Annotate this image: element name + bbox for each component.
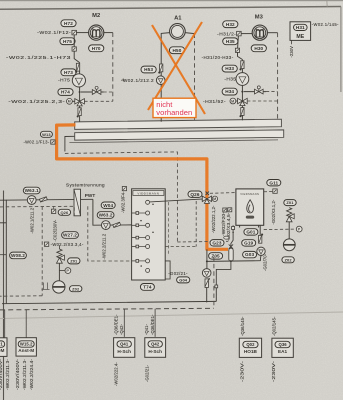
sensor box E T74	[122, 187, 126, 191]
label oval H75	[60, 38, 75, 45]
three-way valve H74	[75, 99, 85, 106]
boiler box G	[236, 189, 264, 225]
svg-text:Z02: Z02	[72, 286, 80, 291]
dashed wire valve M3 right	[247, 100, 277, 102]
pipe capsule to return	[216, 261, 231, 285]
junction dot y261 left	[206, 260, 208, 262]
svg-text:-230V: -230V	[289, 46, 294, 58]
wire gauge stub	[59, 270, 65, 272]
svg-text:-C02/230V-: -C02/230V-	[52, 219, 57, 241]
junction dot M2 tee	[79, 91, 81, 93]
label oval W08.2	[10, 252, 27, 259]
wire to M3 motor	[241, 33, 252, 35]
pipe G04 to return	[206, 288, 208, 303]
svg-text:VIEΦSMANN: VIEΦSMANN	[240, 193, 259, 196]
label oval H32	[223, 21, 238, 28]
x mark on orange	[206, 192, 209, 195]
svg-text:-W02.2/224.4-: -W02.2/224.4-	[29, 358, 34, 390]
label oval G11	[267, 180, 281, 186]
connector square return	[215, 285, 218, 288]
svg-text:Q02: Q02	[246, 342, 255, 347]
sensor below M3 valve	[239, 108, 244, 118]
boiler flame	[247, 200, 254, 213]
svg-text:vorhanden: vorhanden	[156, 108, 192, 117]
pipe stub left edge	[0, 222, 6, 224]
svg-text:Q36: Q36	[278, 342, 287, 347]
sensor box E H31-2	[237, 31, 242, 35]
sensor box E C02	[51, 209, 55, 213]
svg-text:-W02.1/F13-: -W02.1/F13-	[24, 140, 50, 146]
dot boiler left	[232, 232, 234, 234]
orange cross line B	[148, 22, 202, 110]
svg-text:T74: T74	[143, 284, 152, 289]
boiler feet	[240, 225, 259, 227]
svg-text:H-Sch: H-Sch	[117, 349, 131, 354]
svg-text:H70: H70	[92, 46, 101, 51]
svg-text:-W02.1/145-: -W02.1/145-	[312, 22, 339, 28]
label oval H35	[223, 38, 238, 45]
check valve W63.2	[113, 222, 121, 227]
svg-text:M: M	[68, 100, 71, 104]
label oval W63.2	[97, 212, 114, 219]
right frame border line	[340, 7, 342, 93]
svg-text:H34: H34	[225, 89, 234, 94]
pipe M3 main	[241, 60, 243, 121]
plate heat exchanger PWT	[74, 189, 81, 216]
junction dot y261 mid	[230, 260, 232, 262]
svg-text:-230V-: -230V-	[271, 360, 276, 382]
label oval G01	[244, 229, 258, 235]
T74 dots	[140, 203, 154, 266]
svg-text:-Q36/145-: -Q36/145-	[240, 316, 245, 336]
manifold bar 1	[75, 119, 282, 129]
pump A1	[156, 76, 165, 85]
wire Q41 up	[123, 309, 125, 337]
T74 right jumper loop	[165, 261, 170, 279]
small valve above filter	[229, 244, 233, 248]
svg-text:M3: M3	[255, 14, 264, 20]
svg-text:PWT: PWT	[85, 193, 96, 198]
label oval G04	[177, 277, 190, 283]
pump group motor M3	[252, 25, 267, 40]
svg-text:W27.2: W27.2	[63, 233, 77, 238]
wire M3 drop	[237, 36, 240, 48]
label oval W27.2	[62, 232, 79, 239]
svg-text:Z02: Z02	[284, 257, 292, 262]
svg-text:Q42: Q42	[151, 342, 160, 347]
svg-text:M: M	[213, 197, 216, 201]
dashed wire valve branch M2	[104, 91, 113, 93]
svg-text:A1: A1	[174, 15, 182, 21]
pipe G04 branch	[206, 249, 208, 268]
dashed wire T74 right R5	[165, 246, 196, 248]
device box W15.1 cut	[0, 338, 7, 357]
pipe safety down	[58, 263, 60, 281]
wire m to valve	[72, 100, 75, 102]
dashed wire M2 right drop	[112, 33, 114, 102]
svg-text:G04: G04	[179, 277, 188, 282]
svg-text:W63.2: W63.2	[99, 213, 113, 218]
valve M2 branch	[92, 86, 101, 94]
svg-text:G23: G23	[212, 240, 221, 245]
pipe return drop	[215, 288, 217, 302]
pump G03	[257, 247, 265, 255]
wire valve branch M3	[244, 91, 266, 93]
svg-text:Q26: Q26	[60, 210, 69, 215]
svg-text:H30: H30	[254, 46, 263, 51]
svg-text:-W02.2/211.2: -W02.2/211.2	[102, 233, 107, 259]
thin line under bar2	[69, 140, 278, 143]
svg-text:-W02.3/F4-: -W02.3/F4-	[120, 191, 125, 213]
svg-text:-W02.2/X3.3,4-: -W02.2/X3.3,4-	[51, 242, 84, 248]
label oval W13	[40, 131, 52, 137]
controller box T74	[132, 189, 166, 280]
sensor G01	[259, 234, 264, 244]
sensor box T X34	[228, 208, 232, 212]
motor circle M valve M3	[230, 98, 236, 104]
wire Q42 up	[154, 309, 156, 337]
svg-text:H35: H35	[226, 39, 235, 44]
pump W63.2	[101, 221, 110, 230]
svg-text:ME: ME	[296, 34, 304, 40]
label oval Q26 left	[58, 209, 70, 215]
T74 logo band	[133, 191, 164, 196]
pipe M2 main	[79, 63, 81, 122]
wire H31 box stub	[290, 40, 292, 44]
label oval H34	[222, 88, 237, 95]
device box W15.2	[16, 338, 36, 356]
label oval W63.1	[23, 187, 40, 194]
sensor box boiler left	[232, 227, 235, 230]
filter sensor below G04	[205, 278, 210, 287]
label oval W04	[101, 202, 115, 208]
dashed wire boiler to gauge	[264, 228, 297, 231]
label oval H50	[169, 47, 184, 54]
three-way valve Q26	[202, 196, 211, 203]
wire M2 jog	[74, 51, 79, 62]
label oval Q26	[188, 191, 202, 197]
pump G04	[202, 269, 211, 278]
svg-text:-H35: -H35	[224, 76, 236, 82]
svg-text:-230V/400V-: -230V/400V-	[15, 358, 20, 390]
svg-text:H32: H32	[226, 22, 235, 27]
sensor box E F12	[72, 30, 77, 34]
label oval Z05	[209, 253, 223, 259]
sensor H33	[239, 61, 244, 71]
dashed wire right of T74	[168, 202, 170, 255]
svg-text:-G02/21-: -G02/21-	[144, 364, 149, 382]
pump W63.1	[27, 196, 36, 205]
svg-text:-Q42-: -Q42-	[119, 323, 124, 335]
pump group motor M2	[89, 25, 104, 40]
svg-text:-W02.2/211.3-: -W02.2/211.3-	[5, 358, 10, 390]
label oval T74	[140, 284, 154, 291]
svg-text:-H31/2-: -H31/2-	[217, 31, 236, 37]
label oval H72	[61, 20, 76, 27]
svg-text:-230V/400V-: -230V/400V-	[0, 358, 3, 390]
junction dot M3 tee	[241, 91, 243, 93]
svg-text:Z01: Z01	[286, 200, 294, 205]
svg-text:M: M	[231, 99, 234, 103]
dashed wire under bars	[65, 152, 177, 242]
svg-text:-Q36/DE1-: -Q36/DE1-	[150, 314, 155, 335]
svg-text:P: P	[298, 228, 301, 232]
label oval Z02 left	[70, 286, 82, 292]
top frame border line	[0, 7, 341, 10]
stray scan mark	[122, 78, 125, 81]
wire M3 jog	[238, 52, 243, 59]
module box H31 ME	[290, 22, 311, 41]
svg-text:HO1B: HO1B	[244, 349, 258, 354]
svg-text:-W02.2/211.3-: -W02.2/211.3-	[22, 358, 27, 390]
label oval H53	[141, 66, 156, 73]
pressure gauge P right	[296, 226, 302, 232]
pipe boiler left down	[231, 225, 233, 248]
svg-text:G01: G01	[246, 229, 255, 234]
svg-text:W15.2: W15.2	[20, 342, 33, 347]
three-way valve H31-52	[238, 98, 248, 105]
arrow into orange	[202, 197, 205, 201]
svg-text:M2: M2	[92, 13, 100, 19]
svg-text:-W02.1/F12-: -W02.1/F12-	[37, 30, 71, 36]
dashed wire G11 to valve	[210, 192, 273, 194]
device box Q41	[114, 338, 135, 358]
sensor box 225.1	[72, 47, 76, 51]
check valve W63.1	[40, 197, 48, 202]
dashed wire left drop	[41, 207, 43, 296]
svg-text:-W02/222.4-: -W02/222.4-	[114, 362, 119, 386]
svg-text:G19: G19	[244, 240, 253, 245]
pump H35 M3	[236, 73, 249, 86]
svg-text:H33: H33	[225, 66, 234, 71]
device box Q36	[272, 338, 293, 357]
sensor below H74	[77, 108, 82, 118]
wire M2 motor right	[104, 32, 113, 34]
wire M3 motor right	[267, 32, 277, 34]
pipe left return drop	[5, 200, 7, 304]
svg-text:-G02/70-: -G02/70-	[263, 253, 268, 271]
sensor H53	[158, 64, 163, 74]
valve M3 branch	[255, 86, 264, 94]
label oval G03	[243, 251, 257, 257]
top scan edge	[0, 0, 343, 1]
wire T74 to Q26 valve	[150, 199, 204, 202]
dashed wire bus drop	[213, 257, 215, 309]
expansion vessel Z02 right	[283, 239, 295, 251]
pipe stub W08.2	[0, 254, 6, 256]
frame tick top	[326, 0, 328, 7]
svg-text:-W02.1/225.2,3-: -W02.1/225.2,3-	[8, 99, 65, 105]
svg-text:-H31/20-H33-: -H31/20-H33-	[202, 55, 234, 61]
safety valve Z01 right	[286, 208, 294, 222]
T74 terminal circles	[146, 200, 150, 272]
pipe bottom return	[2, 301, 216, 303]
device box Q02	[239, 338, 261, 357]
motor circle M Q26	[212, 196, 217, 201]
svg-text:W13: W13	[42, 132, 51, 137]
svg-text:-H75: -H75	[58, 78, 70, 84]
svg-text:-Q02/145-: -Q02/145-	[272, 316, 277, 336]
svg-text:Z05: Z05	[211, 253, 220, 258]
svg-text:H74: H74	[61, 90, 70, 95]
sensor box E F13	[51, 140, 55, 144]
label oval Z02 right	[282, 257, 294, 263]
svg-text:-Q41-: -Q41-	[144, 323, 149, 335]
pipe boiler right down	[259, 225, 261, 235]
manifold bar 2	[75, 130, 284, 140]
pipe G03 elbow	[260, 256, 263, 261]
filter capsule Z05	[229, 248, 233, 261]
dashed wire valve branch M3	[266, 91, 278, 93]
svg-text:-W02/222.1,2-: -W02/222.1,2-	[211, 205, 216, 233]
svg-text:-G02/X3.1,2-: -G02/X3.1,2-	[271, 199, 276, 224]
label oval H70	[89, 45, 104, 52]
pipe safety right down	[288, 222, 290, 239]
svg-text:W63.1: W63.1	[25, 188, 39, 193]
svg-text:W04: W04	[103, 203, 113, 208]
svg-text:-230V-: -230V-	[240, 360, 245, 382]
pipe PWT down elbow	[93, 199, 132, 225]
label oval H30	[251, 45, 266, 52]
vessel mount marks	[42, 283, 50, 290]
svg-text:Q41: Q41	[120, 342, 129, 347]
sensor box E F20	[223, 208, 227, 212]
label oval G23	[210, 240, 224, 246]
wire m to valve M3	[236, 100, 238, 102]
wire M2 drop	[73, 35, 75, 47]
svg-text:W08.2: W08.2	[11, 253, 25, 258]
boiler small logo	[246, 216, 254, 219]
label oval Z01 left	[68, 258, 80, 264]
nicht vorhanden box	[153, 98, 196, 117]
dashed wire sensors	[177, 240, 228, 243]
dashed wire left bottom corner	[0, 295, 42, 297]
sensor box T W27	[44, 242, 48, 246]
label oval H33	[222, 65, 237, 72]
svg-text:-W02.1/225.1-H73: -W02.1/225.1-H73	[6, 55, 71, 61]
svg-text:H31: H31	[296, 25, 305, 30]
svg-text:Q26: Q26	[190, 192, 199, 197]
svg-text:Z01: Z01	[70, 258, 78, 263]
svg-text:H50: H50	[173, 48, 182, 53]
svg-text:-W02.1/212.2: -W02.1/212.2	[121, 78, 154, 84]
safety valve Z01 left	[57, 249, 65, 263]
tiny oval at boiler inlet	[224, 236, 229, 239]
motor circle M valve M2	[67, 98, 73, 104]
dashed wire valve M2 right	[84, 100, 112, 102]
svg-text:Systemtrennung: Systemtrennung	[66, 183, 105, 188]
svg-text:-G02/21-: -G02/21-	[168, 271, 188, 277]
paper crease line	[0, 312, 343, 319]
dashed wire M3 right drop	[277, 33, 279, 120]
svg-text:H72: H72	[64, 21, 73, 26]
dashed wire up to Q26	[195, 201, 197, 247]
wire valve branch M2	[81, 91, 104, 93]
orange cross line A	[152, 25, 205, 114]
wire E stub	[53, 207, 55, 210]
svg-text:H75: H75	[63, 39, 72, 44]
svg-text:-W02.1/211.2: -W02.1/211.2	[30, 207, 35, 233]
dashed wire A1 right drop	[194, 34, 196, 98]
wire W15.2 up	[25, 310, 27, 338]
svg-text:Anst-M: Anst-M	[0, 348, 5, 353]
svg-text:EA1: EA1	[278, 349, 288, 354]
label oval H74	[58, 89, 73, 96]
sensor box E G11	[273, 189, 277, 193]
expansion vessel Z02 left	[53, 281, 65, 293]
device box Q42	[145, 338, 166, 358]
dashed wire mid drop	[88, 206, 132, 261]
label oval Z01 right	[284, 200, 296, 206]
svg-text:G11: G11	[269, 180, 278, 185]
svg-text:H-Sch: H-Sch	[148, 349, 162, 354]
wire W15.1 up	[4, 310, 6, 338]
label oval H31	[294, 24, 308, 30]
pressure gauge P left	[65, 268, 71, 274]
dashed wire A1 right drop lower	[194, 118, 196, 120]
dashed wire bottom bus	[0, 308, 214, 310]
T74 internal links	[139, 213, 146, 261]
svg-text:H73: H73	[64, 70, 73, 75]
orange highlighted pipe path	[57, 125, 228, 249]
left drawing border	[3, 191, 5, 400]
sensor H73	[75, 63, 80, 73]
svg-text:P: P	[66, 269, 69, 273]
wire safety stub	[58, 246, 60, 250]
svg-text:G03: G03	[245, 252, 254, 257]
wire bar2 left wrap	[65, 136, 75, 151]
label oval H73	[61, 69, 76, 76]
svg-text:-Q36/DE1-: -Q36/DE1-	[114, 314, 119, 335]
pump H75	[72, 74, 85, 87]
wire A1 right elbow	[185, 33, 195, 34]
dashed wire left bus	[0, 206, 74, 216]
pipe cross link y261	[207, 260, 261, 263]
svg-text:-H31/52-: -H31/52-	[203, 99, 226, 105]
boiler circle A1	[170, 24, 186, 40]
svg-text:VIEΦSMANN: VIEΦSMANN	[137, 192, 159, 195]
sensor box H33	[235, 48, 239, 52]
svg-text:H53: H53	[144, 67, 153, 72]
pipe from left to PWT	[0, 198, 93, 201]
wire to M2 motor	[77, 32, 89, 34]
wire A1 left elbow	[161, 33, 170, 122]
svg-text:Anst-M: Anst-M	[18, 348, 34, 353]
T74 terminal squares	[132, 212, 139, 263]
label oval G19	[242, 240, 256, 246]
